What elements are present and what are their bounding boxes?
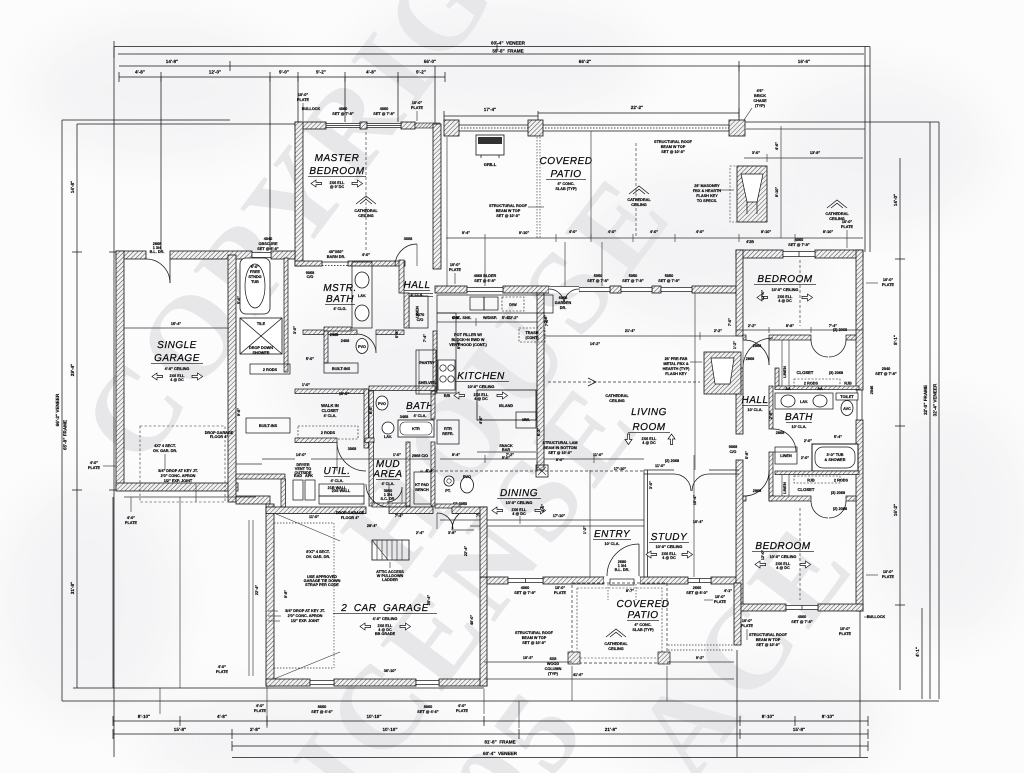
svg-text:FBX & HEARTH: FBX & HEARTH	[693, 189, 722, 193]
room label STUDY	[646, 532, 693, 560]
bottom dimension line 60'-4 VENEER	[232, 751, 868, 758]
svg-text:AREA: AREA	[372, 469, 402, 480]
svg-text:2'-0": 2'-0"	[804, 439, 812, 443]
watermark 2005 diagonal	[346, 663, 612, 773]
svg-text:POT FILLER W/: POT FILLER W/	[454, 333, 483, 337]
svg-text:9'-4": 9'-4"	[462, 231, 470, 235]
svg-text:KTR: KTR	[412, 427, 420, 431]
svg-text:11'-0": 11'-0"	[593, 453, 603, 457]
svg-text:BAR: BAR	[502, 448, 510, 452]
svg-text:CATHEDRAL: CATHEDRAL	[354, 209, 378, 213]
right dimension verticals	[743, 122, 939, 699]
svg-text:3'-0": 3'-0"	[293, 326, 297, 334]
svg-text:59'-8" FRAME: 59'-8" FRAME	[492, 49, 523, 54]
upper right porch cathedral note	[825, 200, 849, 221]
svg-text:4'-8": 4'-8"	[217, 714, 227, 719]
svg-text:4'-0": 4'-0"	[569, 230, 577, 234]
svg-text:2'-8": 2'-8"	[250, 727, 260, 732]
svg-text:2868: 2868	[753, 489, 761, 493]
garage entry door arc	[146, 259, 170, 283]
svg-text:3/4" DROP AT KEY JT.: 3/4" DROP AT KEY JT.	[158, 469, 198, 473]
svg-text:8'-10": 8'-10"	[761, 230, 772, 234]
svg-text:STUDY: STUDY	[651, 532, 688, 543]
svg-text:16'-6": 16'-6"	[798, 59, 810, 64]
svg-text:5'-4": 5'-4"	[834, 435, 842, 439]
living room dim row	[544, 293, 736, 470]
svg-text:COVERED: COVERED	[540, 156, 593, 167]
bedroom ridge dashes	[761, 260, 800, 600]
svg-text:R/B: R/B	[444, 394, 451, 398]
svg-text:(2) 2068: (2) 2068	[665, 459, 679, 463]
bath counter and lavs	[775, 387, 833, 409]
hall to master door	[395, 237, 417, 266]
svg-text:STRUCTURAL LAM: STRUCTURAL LAM	[542, 441, 577, 445]
room label KITCHEN	[453, 371, 509, 401]
svg-text:PLATE: PLATE	[841, 225, 854, 229]
right wing left wall	[729, 250, 743, 611]
room label BATH center	[406, 401, 434, 418]
svg-text:2660: 2660	[693, 586, 701, 590]
svg-text:FREE: FREE	[250, 270, 261, 274]
svg-text:7'-0": 7'-0"	[545, 318, 549, 326]
svg-text:13'-8": 13'-8"	[810, 151, 821, 155]
svg-text:9'-8": 9'-8"	[284, 590, 288, 598]
svg-text:9'-2": 9'-2"	[416, 70, 426, 75]
svg-text:CLOSET: CLOSET	[322, 408, 339, 413]
bottom outline lines	[62, 497, 939, 757]
svg-text:8'-10": 8'-10"	[822, 714, 834, 719]
svg-text:HALL: HALL	[403, 280, 430, 291]
svg-text:CATHEDRAL: CATHEDRAL	[627, 198, 651, 202]
svg-text:BENCH: BENCH	[415, 488, 429, 492]
masonry fireplace note	[693, 184, 734, 203]
svg-text:8'-0": 8'-0"	[369, 406, 373, 414]
svg-text:5'-0": 5'-0"	[251, 265, 259, 269]
master bedroom top wall	[295, 122, 440, 129]
plate labels patio	[449, 220, 854, 284]
svg-text:60'-4" VENEER: 60'-4" VENEER	[483, 751, 518, 756]
svg-text:26' PRE-FAB: 26' PRE-FAB	[665, 357, 688, 361]
svg-text:SET @ 8'-0": SET @ 8'-0"	[686, 591, 708, 595]
svg-text:C/O: C/O	[417, 318, 424, 322]
garage entry door label	[150, 242, 165, 254]
front wall kitchen/living	[435, 286, 739, 293]
svg-text:SET @ 10'-0": SET @ 10'-0"	[661, 150, 685, 154]
hall linen closet	[409, 296, 428, 328]
svg-text:SHOWER: SHOWER	[252, 351, 269, 355]
svg-text:4040: 4040	[264, 237, 272, 241]
bottom mid dim row	[484, 656, 734, 679]
svg-text:PLATE: PLATE	[456, 709, 469, 713]
bedroom1 bottom wall	[743, 335, 856, 340]
svg-text:10'-0": 10'-0"	[883, 278, 894, 282]
top dimension line 60'-4 VENEER	[114, 41, 870, 59]
svg-text:RJB: RJB	[844, 382, 852, 386]
svg-text:14'-2": 14'-2"	[590, 342, 601, 346]
svg-text:10'-0" CEILING: 10'-0" CEILING	[468, 385, 495, 389]
svg-text:LINEN: LINEN	[780, 454, 792, 458]
svg-text:4 @ DC: 4 @ DC	[474, 397, 488, 401]
svg-text:BB GRADE: BB GRADE	[375, 632, 396, 636]
watermark LICENSE diagonal	[216, 358, 666, 773]
kitchen left counter and range	[437, 313, 456, 398]
room label COVERED PATIO bottom	[617, 599, 670, 632]
patio column right	[729, 120, 745, 136]
svg-text:10'-0" CEILING: 10'-0" CEILING	[656, 545, 683, 549]
svg-text:5'-4": 5'-4"	[502, 316, 510, 320]
svg-text:GRILL: GRILL	[484, 162, 497, 167]
pantry	[416, 350, 436, 394]
svg-text:SET @ 10'-0": SET @ 10'-0"	[756, 643, 780, 647]
bedroom1 door arc	[744, 340, 769, 365]
svg-text:2968 C/O: 2968 C/O	[412, 454, 428, 458]
svg-text:PLATE: PLATE	[882, 575, 895, 579]
svg-text:D/W: D/W	[509, 303, 517, 307]
right wing bottom wall	[736, 604, 863, 611]
svg-text:10' CLA.: 10' CLA.	[604, 542, 619, 546]
svg-text:4' CLA.: 4' CLA.	[324, 414, 337, 418]
svg-text:AA: AA	[817, 387, 823, 391]
svg-text:3'-0": 3'-0"	[752, 151, 760, 155]
svg-text:GARAGE: GARAGE	[154, 353, 200, 364]
svg-text:PLATE: PLATE	[882, 283, 895, 287]
svg-text:4'-6": 4'-6"	[775, 142, 779, 150]
patio interior verticals	[447, 131, 636, 286]
svg-text:PLATE: PLATE	[254, 709, 267, 713]
built-ins lower	[246, 418, 290, 433]
front wall dining/entry/study	[487, 577, 739, 584]
svg-text:4060: 4060	[380, 107, 388, 111]
svg-text:4'-0": 4'-0"	[608, 230, 616, 234]
master tub	[240, 258, 270, 314]
svg-text:SET @ 6'-8": SET @ 6'-8"	[474, 279, 496, 283]
svg-text:BEDROOM: BEDROOM	[757, 274, 812, 285]
patio fireplace masonry	[730, 166, 767, 222]
top extension lines	[161, 47, 870, 253]
svg-text:C/O: C/O	[730, 450, 737, 454]
patio dim row	[446, 230, 863, 242]
powder east wall	[480, 507, 487, 577]
svg-text:41'-6": 41'-6"	[573, 673, 584, 677]
svg-text:8'-4": 8'-4"	[452, 453, 460, 457]
util room fixtures	[293, 463, 364, 504]
svg-text:32'-4" VENEER: 32'-4" VENEER	[933, 383, 938, 416]
svg-text:KT PAD: KT PAD	[415, 483, 429, 487]
svg-text:8'-10": 8'-10"	[775, 187, 779, 198]
2car garage north wall	[266, 484, 487, 529]
svg-text:10'-0" CEILING: 10'-0" CEILING	[772, 288, 799, 292]
room label 2 CAR GARAGE	[333, 603, 437, 636]
svg-text:10'-4": 10'-4"	[693, 520, 704, 524]
top dimension line 59'-8 FRAME	[118, 49, 864, 55]
mstr bath partition walls	[303, 260, 404, 353]
2 car garage bottom wall	[266, 679, 487, 686]
single garage top wall	[116, 251, 295, 259]
svg-text:PLATE: PLATE	[741, 624, 754, 628]
svg-text:METAL FBX &: METAL FBX &	[663, 362, 688, 366]
left dimension line 66'-2 VENEER	[55, 47, 229, 758]
svg-text:SET @ 7'-8": SET @ 7'-8"	[514, 591, 536, 595]
svg-text:2 RODS: 2 RODS	[321, 431, 336, 435]
svg-text:12'-0": 12'-0"	[209, 70, 221, 75]
svg-text:W/DISP.: W/DISP.	[483, 316, 497, 320]
svg-text:PLATE: PLATE	[216, 670, 229, 674]
svg-text:4'-0": 4'-0"	[362, 253, 370, 257]
svg-text:PANTRY: PANTRY	[419, 361, 435, 365]
svg-text:10'-10": 10'-10"	[382, 727, 397, 732]
svg-text:4" CONC.: 4" CONC.	[557, 182, 574, 186]
svg-text:DROP GARAGE: DROP GARAGE	[336, 511, 365, 515]
svg-text:17'-4": 17'-4"	[484, 107, 496, 112]
room label MSTR BATH	[323, 283, 357, 311]
svg-text:7'-4": 7'-4"	[395, 514, 403, 518]
svg-text:10'-0" CEILING: 10'-0" CEILING	[770, 555, 797, 559]
svg-text:2 RODS: 2 RODS	[834, 479, 849, 483]
closet strip top	[775, 340, 859, 390]
svg-text:5'-0": 5'-0"	[306, 357, 314, 361]
svg-text:PLATE: PLATE	[125, 521, 138, 525]
svg-text:2'-2": 2'-2"	[714, 329, 722, 333]
svg-text:8060: 8060	[318, 705, 326, 709]
wall joining garages	[236, 496, 270, 504]
linen lower	[775, 447, 809, 464]
svg-text:10'-0": 10'-0"	[412, 101, 423, 105]
right wing dim row	[736, 324, 863, 333]
svg-text:14'-8": 14'-8"	[70, 181, 75, 193]
rods closet	[250, 364, 290, 374]
svg-text:4'-0": 4'-0"	[218, 665, 226, 669]
svg-text:22'-4": 22'-4"	[255, 585, 259, 596]
svg-text:5'-4": 5'-4"	[426, 469, 434, 473]
snack bar	[477, 444, 536, 460]
svg-text:PVO: PVO	[378, 402, 386, 406]
pot filler note	[449, 333, 487, 347]
svg-text:BATH: BATH	[406, 401, 434, 412]
svg-text:8X8: 8X8	[550, 657, 557, 661]
svg-text:DINING: DINING	[500, 488, 538, 499]
svg-text:12'-0": 12'-0"	[761, 290, 765, 301]
dim 17'-4 over grill bay	[444, 107, 538, 121]
svg-text:FLOOR 4": FLOOR 4"	[341, 516, 359, 520]
svg-text:OBSCURE: OBSCURE	[259, 242, 278, 246]
svg-text:BEAM W TOP: BEAM W TOP	[756, 638, 781, 642]
svg-text:CATHEDRAL: CATHEDRAL	[604, 642, 628, 646]
master shower	[240, 318, 282, 355]
drop garage floor note	[205, 431, 234, 439]
svg-text:10'-0": 10'-0"	[715, 595, 726, 599]
bedroom2 door arc	[744, 471, 769, 496]
room label MUD AREA	[372, 459, 402, 486]
svg-text:4' CLA.: 4' CLA.	[331, 479, 344, 483]
svg-text:ROOM: ROOM	[632, 422, 665, 433]
central wall kitchen/living	[537, 293, 544, 470]
svg-text:3'-0": 3'-0"	[649, 481, 653, 489]
refrigerator	[437, 420, 459, 444]
window labels front wall	[474, 274, 680, 310]
svg-text:36'-10": 36'-10"	[384, 669, 397, 673]
svg-text:5'-0": 5'-0"	[237, 296, 241, 304]
svg-text:3'-8": 3'-8"	[448, 531, 456, 535]
svg-text:RJB: RJB	[807, 479, 815, 483]
svg-text:16'-0": 16'-0"	[339, 392, 350, 396]
svg-text:SET @ 7'-8": SET @ 7'-8"	[791, 620, 813, 624]
top dimension line subdivisions	[119, 70, 445, 83]
svg-text:(3) 2068: (3) 2068	[829, 371, 843, 375]
svg-text:4'-0": 4'-0"	[127, 516, 135, 520]
svg-text:SET @ 10'-0": SET @ 10'-0"	[496, 214, 520, 218]
svg-text:10'-0": 10'-0"	[840, 627, 851, 631]
svg-text:10' CLA.: 10' CLA.	[747, 408, 762, 412]
svg-text:32'-0" FRAME: 32'-0" FRAME	[923, 385, 928, 415]
covered patio top edge	[446, 125, 865, 131]
svg-text:GARDEN: GARDEN	[555, 301, 572, 305]
room label UTIL	[324, 466, 351, 490]
bottom dimension line row 2	[113, 727, 868, 739]
svg-text:TILE: TILE	[257, 322, 266, 326]
bottom dimension line row 1	[113, 714, 868, 726]
svg-text:28'-4": 28'-4"	[367, 524, 378, 528]
svg-text:40"X60": 40"X60"	[329, 250, 344, 254]
svg-text:WOOD: WOOD	[547, 662, 559, 666]
svg-text:LAV.: LAV.	[358, 294, 366, 298]
svg-text:7'-0": 7'-0"	[728, 318, 732, 326]
patio column left	[444, 120, 459, 136]
svg-text:DROP DOWN: DROP DOWN	[249, 346, 273, 350]
svg-text:SLAB (TYP): SLAB (TYP)	[555, 187, 577, 191]
svg-text:(CONT): (CONT)	[525, 336, 539, 340]
svg-text:4'-0": 4'-0"	[256, 704, 264, 708]
svg-text:2'-2": 2'-2"	[748, 324, 756, 328]
center dim chain	[236, 453, 679, 464]
svg-text:21'-8": 21'-8"	[605, 727, 617, 732]
svg-text:4' CLA.: 4' CLA.	[414, 414, 427, 418]
svg-text:CLOSET: CLOSET	[797, 370, 814, 375]
room label HALL right wing	[741, 395, 768, 412]
svg-text:FLASH KEY: FLASH KEY	[665, 372, 687, 376]
svg-text:4'-1": 4'-1"	[915, 647, 920, 657]
top dimension line 14'-8 / 56'-0 / 16'-6	[119, 59, 870, 71]
svg-text:TO SPECS.: TO SPECS.	[697, 199, 717, 203]
svg-text:7'-4": 7'-4"	[829, 324, 837, 328]
watermark HOUSE diagonal	[316, 147, 699, 596]
svg-text:ISLAND: ISLAND	[499, 404, 513, 408]
svg-text:STRUCTURAL ROOF: STRUCTURAL ROOF	[654, 140, 693, 144]
room label WALK IN CLOSET	[321, 403, 339, 418]
svg-text:OV. GAR. DR.: OV. GAR. DR.	[153, 449, 177, 453]
svg-text:SET @ 10'-0": SET @ 10'-0"	[522, 641, 546, 645]
room label BEDROOM bottom right	[752, 541, 814, 570]
svg-text:4 @ DC: 4 @ DC	[512, 512, 526, 516]
svg-text:AA: AA	[785, 387, 791, 391]
svg-text:3070: 3070	[416, 313, 424, 317]
svg-text:STNDG: STNDG	[248, 275, 261, 279]
svg-text:10'-3": 10'-3"	[523, 656, 534, 660]
svg-text:PLATE: PLATE	[839, 632, 852, 636]
svg-text:STRUCTURAL ROOF: STRUCTURAL ROOF	[515, 631, 554, 635]
svg-text:(3) 2068: (3) 2068	[831, 491, 845, 495]
svg-text:4 @ DC: 4 @ DC	[170, 378, 184, 382]
kitchen west wall	[433, 331, 437, 391]
svg-text:REFR.: REFR.	[442, 432, 453, 436]
svg-text:FLOOR 4": FLOOR 4"	[210, 435, 228, 439]
svg-text:22'-2": 22'-2"	[631, 105, 643, 110]
svg-text:PLATE: PLATE	[554, 591, 567, 595]
svg-text:9068: 9068	[729, 445, 737, 449]
right wing top wall	[736, 250, 863, 258]
svg-text:4060 BLDER: 4060 BLDER	[474, 274, 497, 278]
room label HALL center	[403, 280, 430, 297]
hall/bath divider wall	[769, 386, 796, 501]
mstr bath east partition	[284, 258, 288, 372]
window labels right wing top	[746, 238, 810, 247]
svg-text:SET @ 7'-8": SET @ 7'-8"	[587, 279, 609, 283]
living room cathedral ridge	[548, 378, 700, 403]
svg-text:HALL: HALL	[741, 395, 768, 406]
svg-text:2868: 2868	[746, 357, 754, 361]
svg-text:STRAP PER CODE: STRAP PER CODE	[305, 583, 339, 587]
svg-text:PLATE: PLATE	[411, 106, 424, 110]
svg-text:17'-10": 17'-10"	[553, 514, 566, 518]
svg-text:SET @ 7'-8": SET @ 7'-8"	[373, 112, 395, 116]
svg-text:PATIO: PATIO	[550, 169, 581, 180]
master bedroom bottom wall	[295, 250, 405, 279]
svg-text:STRUCTURAL ROOF: STRUCTURAL ROOF	[749, 633, 788, 637]
2 car garage right wall	[480, 577, 487, 686]
svg-text:SLAB (TYP): SLAB (TYP)	[632, 628, 654, 632]
svg-text:4'-0": 4'-0"	[650, 230, 658, 234]
porch dim row	[744, 126, 863, 238]
svg-text:LAV.: LAV.	[800, 400, 808, 404]
entry door threshold	[604, 577, 640, 585]
svg-text:4'-6": 4'-6"	[479, 416, 483, 424]
svg-text:9'-0": 9'-0"	[279, 70, 289, 75]
master bedroom left wall	[295, 122, 303, 266]
svg-text:SET @ 7'-8": SET @ 7'-8"	[788, 243, 810, 247]
patio bottom cathedral chevron	[604, 629, 628, 651]
svg-text:9'-2": 9'-2"	[316, 70, 326, 75]
svg-text:10'-0" CEILING: 10'-0" CEILING	[506, 501, 533, 505]
svg-text:@ 9' DC: @ 9' DC	[330, 185, 345, 189]
svg-text:2046: 2046	[870, 386, 874, 394]
svg-text:8'-10": 8'-10"	[762, 714, 774, 719]
bottom dimension line 81'-8 FRAME	[232, 740, 868, 752]
single garage right wall	[228, 255, 236, 502]
svg-text:BUILT-INS: BUILT-INS	[259, 424, 278, 428]
svg-text:14'-0": 14'-0"	[296, 453, 307, 457]
svg-text:4'-0" CEILING: 4'-0" CEILING	[165, 367, 190, 371]
mud cased opening note	[412, 454, 428, 458]
master bath lav counter	[352, 262, 372, 328]
right wing hall door top	[743, 338, 773, 368]
svg-text:HEARTH (TYP): HEARTH (TYP)	[663, 367, 691, 371]
svg-text:10'-0": 10'-0"	[450, 263, 461, 267]
watermark COPYRIGHT diagonal	[56, 0, 631, 486]
svg-text:PLATE: PLATE	[88, 466, 101, 470]
room label MASTER BEDROOM	[308, 153, 366, 189]
svg-text:8'-10": 8'-10"	[138, 714, 150, 719]
svg-text:SHELVES: SHELVES	[418, 381, 436, 385]
svg-text:LINEN: LINEN	[783, 482, 787, 494]
svg-text:4'-1": 4'-1"	[724, 589, 732, 593]
svg-text:FLASH KEY: FLASH KEY	[696, 194, 718, 198]
svg-text:B.L. DR.: B.L. DR.	[150, 250, 165, 254]
svg-text:LIVING: LIVING	[631, 407, 667, 418]
2 car garage left wall	[266, 504, 274, 686]
svg-text:RTR: RTR	[444, 427, 452, 431]
living room fireplace	[704, 352, 741, 394]
svg-text:9'-8": 9'-8"	[237, 408, 241, 416]
svg-text:PLATE: PLATE	[297, 98, 310, 102]
